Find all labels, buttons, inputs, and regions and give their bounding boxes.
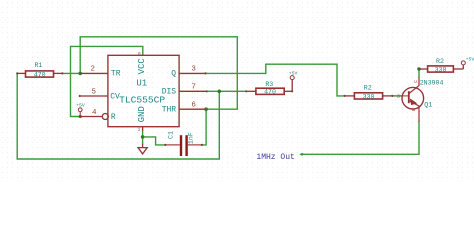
svg-text:B: B <box>397 94 400 100</box>
svg-text:470: 470 <box>34 71 46 78</box>
svg-text:R1: R1 <box>34 62 42 69</box>
svg-text:6: 6 <box>191 102 196 110</box>
svg-text:2: 2 <box>91 66 96 74</box>
svg-text:470: 470 <box>264 89 276 96</box>
svg-text:1: 1 <box>138 127 141 132</box>
svg-text:R2: R2 <box>436 58 444 65</box>
svg-text:330: 330 <box>435 66 447 73</box>
svg-text:+5V: +5V <box>466 56 474 62</box>
svg-text:+5V: +5V <box>289 71 298 77</box>
svg-text:GND: GND <box>137 106 147 122</box>
svg-text:E: E <box>411 108 417 111</box>
svg-text:1nF: 1nF <box>187 132 194 144</box>
svg-text:R: R <box>111 113 116 122</box>
svg-text:THR: THR <box>162 106 177 115</box>
svg-text:TR: TR <box>111 70 121 79</box>
svg-text:U1: U1 <box>136 79 147 89</box>
svg-text:+5V: +5V <box>76 102 85 108</box>
svg-text:8: 8 <box>138 52 141 57</box>
svg-text:2N3904: 2N3904 <box>420 79 444 86</box>
svg-text:Q1: Q1 <box>424 102 432 109</box>
svg-text:C1: C1 <box>168 131 175 139</box>
svg-text:Q: Q <box>171 70 176 79</box>
svg-text:C: C <box>413 80 419 83</box>
svg-text:330: 330 <box>363 93 375 100</box>
svg-text:R3: R3 <box>265 81 273 88</box>
svg-text:7: 7 <box>191 84 196 92</box>
svg-text:R2: R2 <box>364 85 372 92</box>
svg-text:TLC555CP: TLC555CP <box>119 94 165 105</box>
svg-text:5: 5 <box>92 88 97 96</box>
svg-text:3: 3 <box>191 66 196 74</box>
svg-text:1MHz Out: 1MHz Out <box>256 153 294 162</box>
svg-text:VCC: VCC <box>137 58 147 75</box>
svg-text:4: 4 <box>92 109 97 117</box>
